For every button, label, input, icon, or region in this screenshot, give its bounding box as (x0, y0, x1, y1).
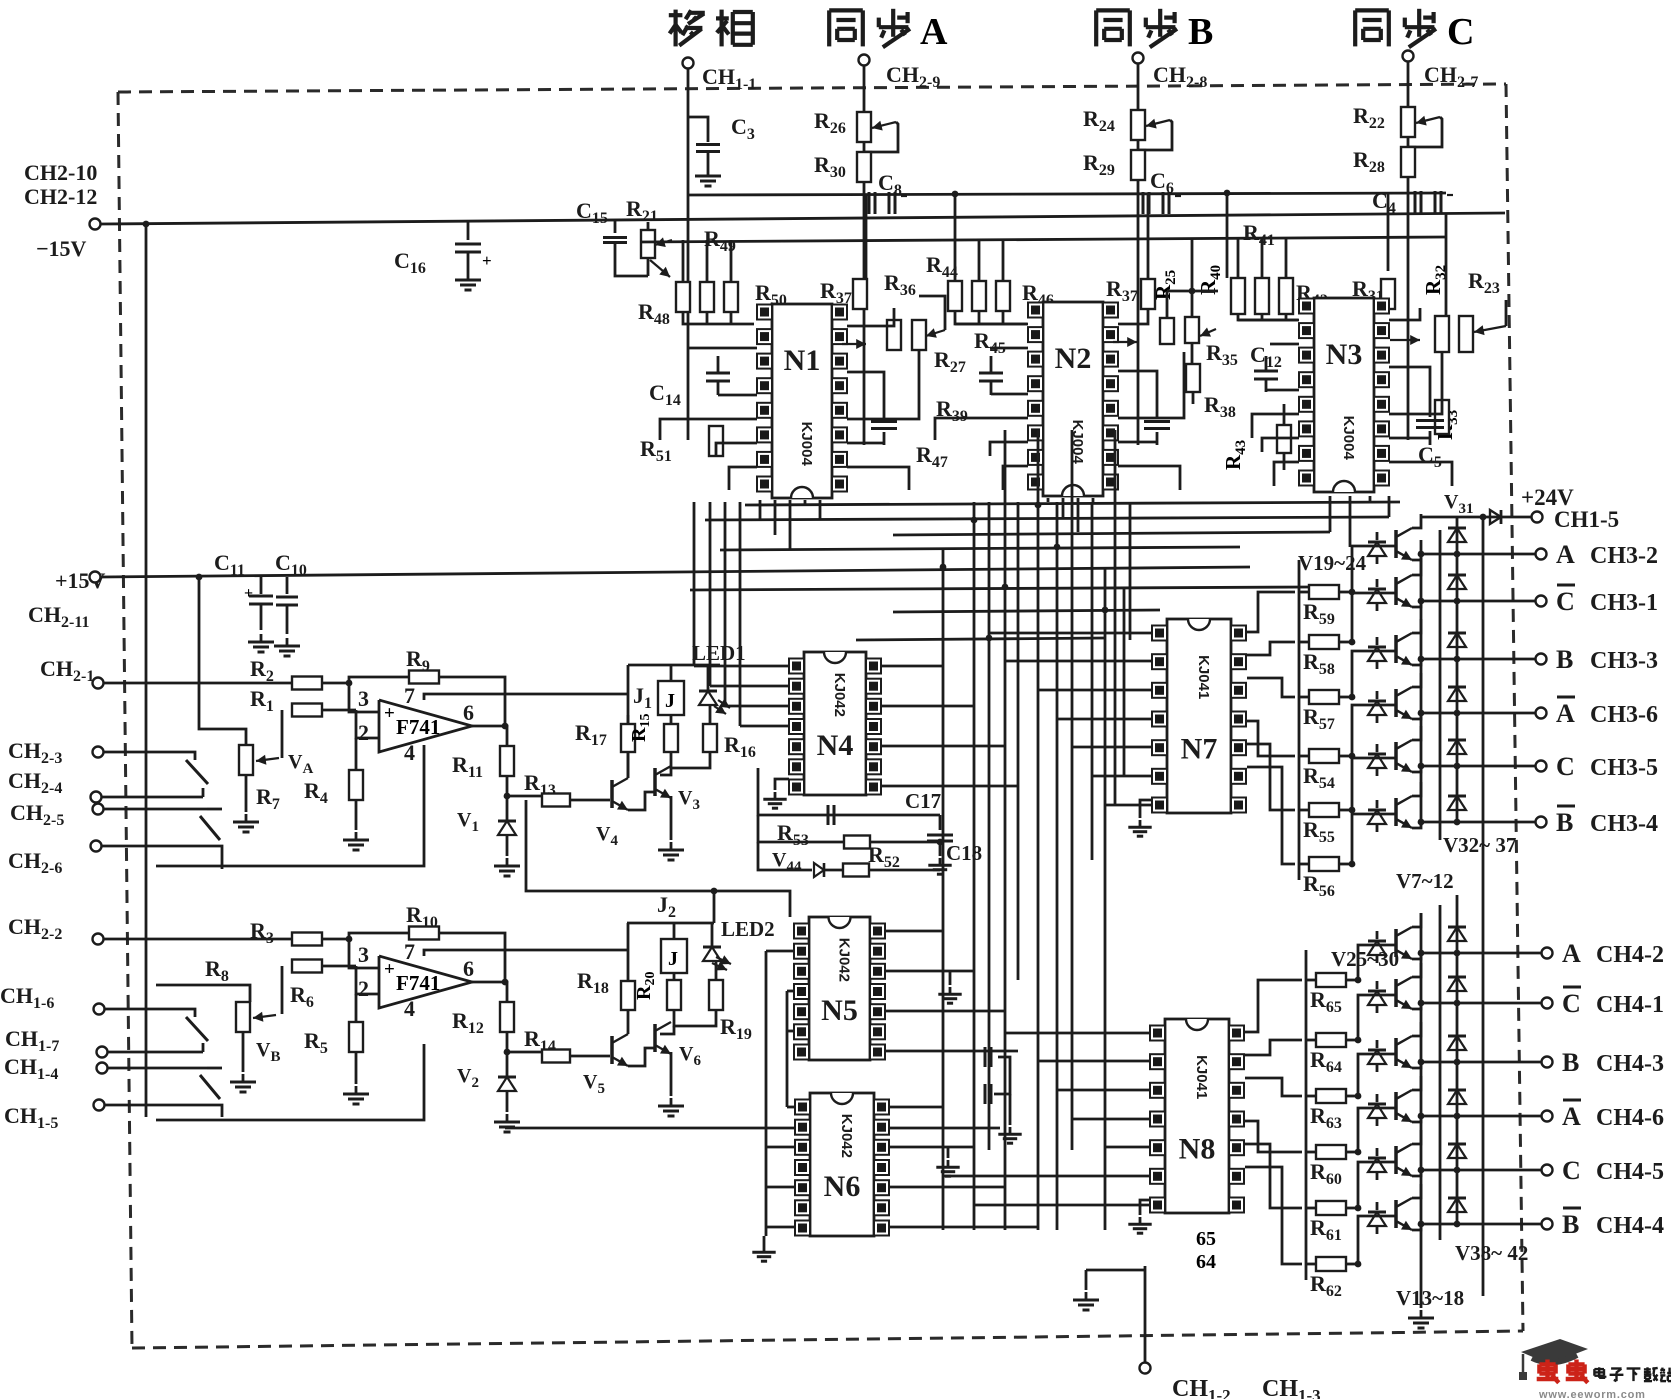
resistor R51 (709, 426, 723, 456)
pot R35 (1185, 317, 1199, 343)
wire pin7 up B (424, 950, 628, 956)
stubs N1 row (682, 240, 685, 282)
opamp B F741 (379, 956, 472, 1008)
wire out CH4-1 (1421, 1002, 1541, 1005)
IC N6 (810, 1093, 874, 1236)
svg-text:KJ042: KJ042 (836, 938, 853, 982)
pot R24 (1131, 110, 1145, 140)
IC N1 (772, 304, 832, 498)
svg-text:CH4-6: CH4-6 (1596, 1105, 1664, 1131)
watermark cap (1521, 1339, 1588, 1364)
resistor R25b (1160, 318, 1174, 344)
diode V13 (1368, 941, 1386, 955)
svg-text:N5: N5 (821, 994, 858, 1027)
terminal CH1-5 right (1532, 512, 1543, 523)
mesh h0b (705, 517, 1389, 520)
wire base V20 (1352, 593, 1396, 642)
resistor R65 (1306, 979, 1316, 982)
wire CH1-2 down (1144, 1266, 1147, 1362)
svg-text:B: B (1556, 645, 1573, 674)
wire emitter join b2 (1412, 1062, 1421, 1068)
diode V15 (1368, 1050, 1386, 1064)
-15V rail (101, 213, 1505, 224)
svg-text:KJ041: KJ041 (1193, 1055, 1210, 1099)
wire pin2 (356, 710, 379, 738)
ground N6 left (763, 1236, 766, 1245)
svg-text:3: 3 (358, 686, 369, 711)
svg-text:+: + (482, 251, 492, 270)
wire N1 right feeds (847, 308, 894, 326)
wire emitter join 1 (1412, 601, 1421, 607)
terminal CH2-3 (93, 747, 104, 758)
svg-text:65: 65 (1196, 1228, 1216, 1250)
svg-text:KJ042: KJ042 (831, 673, 848, 717)
svg-text:B: B (1188, 11, 1213, 53)
svg-text:3: 3 (358, 942, 369, 967)
transistor V27 (1394, 1038, 1398, 1066)
resistor R63 (1306, 1095, 1316, 1098)
transistor V21 (1394, 635, 1398, 663)
wire block A to N5 area (526, 800, 790, 917)
wire elbow N4 pin3 (725, 705, 789, 708)
stub C6 down (1226, 193, 1229, 278)
wire V4 collector (627, 694, 630, 778)
terminal +15V (90, 572, 101, 583)
svg-text:LED2: LED2 (721, 917, 775, 941)
mesh v left (693, 502, 696, 666)
terminal CH4-3 (1542, 1057, 1553, 1068)
IC N3 (1314, 298, 1374, 492)
resistor R62 (1306, 1263, 1316, 1266)
label 移相 (669, 13, 683, 17)
wire out CH4-4 (1421, 1223, 1541, 1226)
diode V9 (1368, 647, 1386, 661)
resistor R61 (1306, 1207, 1316, 1210)
input contact A (178, 752, 195, 760)
wire N8 pin bus (1245, 980, 1302, 1032)
wire collector V21 (1412, 619, 1421, 633)
diode V14 (1368, 991, 1386, 1005)
svg-text:CH2-10: CH2-10 (24, 160, 97, 185)
wire out CH3-6 (1421, 712, 1535, 715)
wire V3 emitter (670, 796, 673, 840)
wire out CH4-6 (1421, 1115, 1541, 1118)
border frame left (118, 92, 132, 1348)
svg-text:CH3-5: CH3-5 (1590, 755, 1658, 781)
diode V8 (1368, 589, 1386, 603)
svg-text:CH4-1: CH4-1 (1596, 992, 1664, 1018)
wire 同步A down (863, 66, 866, 445)
wire elbow N4 pin1 (694, 665, 789, 668)
transistor V28 (1394, 1092, 1398, 1120)
IC N2 (1043, 302, 1103, 496)
ground arrow N3 (1390, 339, 1420, 341)
resistor R29 (1131, 150, 1145, 180)
wire collector V19 (1412, 514, 1421, 528)
diode V37 (1456, 766, 1459, 808)
wire long bottom to N6 (505, 1127, 1000, 1130)
svg-text:64: 64 (1196, 1251, 1216, 1273)
svg-text:F741: F741 (396, 971, 440, 995)
terminal CH4-4 (1542, 1219, 1553, 1230)
wire elbows N8 pins (1005, 1032, 1150, 1035)
wire block B bottom (156, 1044, 424, 1120)
wire pin3 (349, 683, 379, 712)
resistor R59 (1299, 591, 1309, 594)
IC N5 (809, 917, 870, 1060)
diode V18 (1368, 1212, 1386, 1226)
caps right of N5 (984, 1047, 987, 1067)
ground C10 (286, 638, 289, 646)
svg-text:KJ004: KJ004 (798, 422, 815, 467)
mesh h4 (856, 638, 1105, 640)
terminal CH3-2 (1536, 549, 1547, 560)
wire emitter join b5 (1412, 1224, 1421, 1230)
svg-text:CH4-5: CH4-5 (1596, 1159, 1664, 1185)
svg-text:C17: C17 (905, 789, 941, 813)
wire stubs N4 right (881, 665, 943, 668)
collector bus CH4 (1420, 913, 1423, 1228)
wire N2 right feeds (1118, 309, 1148, 324)
svg-text:N3: N3 (1326, 338, 1363, 371)
wire out CH3-2 (1421, 553, 1535, 556)
wire N1 left feeds (688, 347, 757, 350)
wire CH2-4 (102, 796, 203, 799)
diode V34 (1456, 601, 1459, 645)
svg-text:A: A (1556, 699, 1575, 728)
pot VA (239, 745, 253, 775)
IC N4 (804, 652, 866, 795)
wire emitter join b4 (1412, 1170, 1421, 1176)
terminal CH2-5 (93, 804, 104, 815)
border frame top (118, 84, 1506, 92)
diode V35 (1456, 659, 1459, 699)
svg-text:N6: N6 (824, 1170, 861, 1203)
drops N3 bottom (1388, 496, 1391, 517)
ground V2 (506, 1114, 509, 1122)
svg-text:N8: N8 (1179, 1133, 1216, 1166)
diode V36 (1456, 713, 1459, 752)
wire CH2-5 (104, 808, 207, 811)
drops N1 bottom (759, 500, 762, 520)
terminal CH2-4 (91, 792, 102, 803)
ground C16 (467, 252, 470, 272)
rail y242 (640, 237, 1446, 242)
wire base V24 (1352, 814, 1396, 864)
resistor R60 (1306, 1151, 1316, 1154)
wire collector V26 (1412, 963, 1421, 977)
wire out CH3-3 (1421, 658, 1535, 661)
wire base V28 (1358, 1108, 1396, 1152)
terminal CH1-4 (97, 1063, 108, 1074)
ground caps (1009, 1094, 1012, 1125)
wire CH1-4 (108, 1067, 207, 1070)
pot R22 (1401, 107, 1415, 137)
resistor R36 (887, 320, 901, 350)
transistor V30 (1394, 1200, 1398, 1228)
ground V3 (670, 842, 673, 850)
wire N5 left pins bus (765, 951, 768, 1236)
diode V17 (1368, 1158, 1386, 1172)
watermark 虫虫 (1545, 1360, 1549, 1380)
pot bus N2right (1167, 290, 1218, 293)
wire diode chain top CH4 (1456, 895, 1459, 913)
wire emitter join 4 (1412, 766, 1421, 772)
svg-text:V19~24: V19~24 (1298, 551, 1367, 575)
svg-text:V13~18: V13~18 (1396, 1286, 1464, 1310)
diode V12 (1368, 810, 1386, 824)
ground C11 (260, 634, 263, 642)
capacitor C17cap (827, 805, 830, 825)
svg-text:A: A (1562, 1102, 1581, 1131)
wire R17 bottom (627, 752, 630, 778)
svg-text:6: 6 (463, 700, 474, 725)
capacitor near N1 bottom (871, 420, 897, 423)
svg-text:KJ041: KJ041 (1195, 655, 1212, 699)
capacitor C16 (467, 222, 470, 240)
diode V44 (758, 842, 812, 870)
transistor V5 (610, 1036, 614, 1064)
svg-text:C: C (1562, 1156, 1581, 1185)
wire emitter join 2 (1412, 659, 1421, 665)
wire tops J2 LED2 (627, 922, 714, 925)
vertical +24V bus (1482, 517, 1485, 1296)
ground R4 (355, 832, 358, 840)
svg-text:7: 7 (404, 683, 415, 708)
terminal CH3-6 (1536, 708, 1547, 719)
diode V10 (1368, 701, 1386, 715)
wire base V21 (1352, 651, 1396, 697)
svg-text:V25~30: V25~30 (1331, 947, 1399, 971)
resistor row N3 (1231, 278, 1245, 314)
wire under N4 (758, 768, 940, 815)
junction V1 (504, 793, 511, 800)
terminal CH4-1 (1542, 998, 1553, 1009)
wire R15 R16 bottoms (671, 752, 710, 768)
diode V32 (1456, 517, 1459, 540)
resistor R30 (857, 152, 871, 182)
ground VA (245, 775, 248, 812)
resistor row N1 a (676, 282, 690, 312)
wire base V22 (1352, 705, 1396, 756)
svg-text:B: B (1562, 1048, 1579, 1077)
vertical from +15V (199, 577, 246, 745)
ground N4 (775, 779, 789, 790)
wire tops J1 LED1 (628, 664, 720, 667)
resistor R31 (1381, 279, 1395, 309)
svg-text:+: + (384, 959, 395, 980)
svg-text:F741: F741 (396, 715, 440, 739)
wire emitter join b1 (1412, 1003, 1421, 1009)
resistor R4 (349, 770, 363, 800)
+15V rail (101, 567, 1250, 577)
wire out CH3-4 (1421, 821, 1535, 824)
svg-text:2: 2 (358, 976, 369, 1001)
terminal CH1-2 (1140, 1363, 1151, 1374)
terminal CH3-4 (1536, 817, 1547, 828)
wire base V30 (1358, 1216, 1396, 1264)
wire collector V29 (1412, 1130, 1421, 1144)
wire out CH4-2 (1421, 952, 1541, 955)
ground C18 (939, 858, 942, 865)
terminal CH2-1 (93, 678, 104, 689)
svg-text:C: C (1556, 752, 1575, 781)
resistor R55 (1299, 809, 1309, 812)
IC N8 (1165, 1019, 1229, 1213)
wire stubs N6 right (889, 1106, 943, 1109)
terminal CH3-1 (1536, 596, 1547, 607)
resistor R58 (1299, 641, 1309, 644)
wire out CH4-3 (1421, 1061, 1541, 1064)
junction V2 (504, 1049, 511, 1056)
diode V42 (1456, 1170, 1459, 1210)
svg-text:J: J (665, 690, 675, 712)
svg-text:www.eeworm.com: www.eeworm.com (1538, 1389, 1646, 1399)
mesh h0a (745, 502, 1400, 505)
svg-text:−15V: −15V (36, 236, 87, 261)
diode V42 (1456, 1116, 1459, 1156)
wire collector V25 (1412, 913, 1421, 927)
wire N3 left feeds (1238, 319, 1299, 322)
svg-text:KJ004: KJ004 (1340, 416, 1357, 461)
wire CH1-7 (108, 1051, 203, 1054)
svg-text:CH3-4: CH3-4 (1590, 811, 1658, 837)
stubs N2 row (978, 240, 981, 281)
label 同步C (1353, 10, 1357, 46)
wire out CH3-5 (1421, 765, 1535, 768)
wire emitter join 3 (1412, 713, 1421, 719)
terminal CH1-1 (683, 58, 694, 69)
pot R23 (1459, 316, 1473, 352)
wire CH2-2 (104, 938, 294, 941)
wire base V26 (1358, 995, 1396, 1040)
resistor R64 (1306, 1039, 1316, 1042)
resistor R43 (1277, 425, 1291, 453)
junction R2 out (346, 680, 353, 687)
wire pin2 B (356, 966, 379, 994)
wire base V29 (1358, 1162, 1396, 1208)
transistor V3 (653, 768, 657, 796)
wire collector V23 (1412, 726, 1421, 740)
svg-text:CH3-2: CH3-2 (1590, 543, 1658, 569)
wire CH1-5 (105, 1104, 203, 1107)
svg-text:C: C (1447, 11, 1474, 53)
capacitor C3 (688, 117, 708, 142)
transistor V22 (1394, 689, 1398, 717)
ground bottom center (1086, 1269, 1145, 1272)
diode V41 (1456, 1062, 1459, 1102)
terminal CH2-7 (1403, 51, 1414, 62)
label 同步B (1094, 10, 1098, 46)
wire pin4 down (423, 745, 426, 770)
diode V16 (1368, 1104, 1386, 1118)
wire row bottom N1 (683, 312, 754, 324)
wire pin7 up (424, 694, 628, 700)
diode V11 (1368, 754, 1386, 768)
mesh junction dots (971, 517, 978, 524)
wire elbow N4 pin4 (740, 725, 789, 728)
pot R26 (857, 112, 871, 142)
wire base V19 (1352, 546, 1396, 592)
ground N7 (1140, 800, 1152, 818)
svg-text:C: C (1556, 587, 1575, 616)
ground diode chain (1420, 1228, 1423, 1308)
bus left of resistors CH3 (1298, 560, 1301, 880)
wire elbows N7 pins (989, 632, 1152, 635)
resistor R37b (1141, 279, 1155, 309)
wire 移相 down (687, 69, 690, 440)
svg-text:N4: N4 (817, 729, 854, 762)
wire 同步B down (1137, 64, 1140, 445)
svg-text:CH4-4: CH4-4 (1596, 1213, 1664, 1239)
resistor R57 (1299, 696, 1309, 699)
bus left of resistors CH4 (1305, 950, 1308, 1280)
svg-text:B: B (1562, 1210, 1579, 1239)
svg-text:C18: C18 (946, 841, 982, 865)
wire collector V22 (1412, 673, 1421, 687)
junction R3 out (346, 936, 353, 943)
wire V5 to V6 (628, 1048, 655, 1066)
wire R20 R19 bottoms (674, 1010, 716, 1026)
transistor V19 (1394, 530, 1398, 558)
svg-text:V32~ 37: V32~ 37 (1443, 833, 1516, 857)
transistor V4 (610, 780, 614, 808)
mesh h3 (893, 610, 1160, 612)
junction C8 right (952, 191, 959, 198)
transistor V23 (1394, 742, 1398, 770)
transistor V24 (1394, 798, 1398, 826)
stub C8 down (954, 194, 957, 281)
svg-text:J: J (668, 948, 678, 970)
wire V6 emitter (670, 1052, 673, 1096)
label 同步A (827, 10, 831, 46)
wire J2 trunk up (713, 891, 716, 923)
transistor V6 (653, 1024, 657, 1052)
terminal CH2-9 (859, 55, 870, 66)
wire left vertical main (145, 224, 148, 1117)
wire 同步C down (1407, 62, 1410, 440)
ground V1 (506, 858, 509, 866)
terminal -15V (90, 219, 101, 230)
terminal CH4-6 (1542, 1111, 1553, 1122)
ground N8 (1140, 1200, 1150, 1215)
svg-text:A: A (1562, 939, 1581, 968)
svg-text:6: 6 (463, 956, 474, 981)
wire N2 left feeds (955, 323, 1028, 326)
ground R5 (355, 1086, 358, 1094)
terminal CH3-5 (1536, 761, 1547, 772)
resistor R28 (1401, 147, 1415, 177)
input contact B (178, 1009, 195, 1017)
transistor V20 (1394, 577, 1398, 605)
drops N2 bottom (1047, 498, 1050, 502)
svg-text:2: 2 (358, 720, 369, 745)
wire out CH4-5 (1421, 1169, 1541, 1172)
wire base V27 (1358, 1054, 1396, 1096)
terminal CH2-8 (1133, 53, 1144, 64)
IC N7 (1167, 619, 1231, 813)
mesh h1 (720, 547, 1240, 550)
svg-text:B: B (1556, 808, 1573, 837)
pot R27 (912, 320, 926, 350)
wire N3 right feeds (1389, 308, 1420, 320)
resistor R56 (1299, 863, 1309, 866)
opamp A F741 (379, 700, 472, 752)
mesh h2 (690, 587, 1310, 590)
svg-text:N7: N7 (1181, 733, 1218, 766)
svg-text:V7~12: V7~12 (1396, 869, 1454, 893)
wire emitter join b0 (1412, 953, 1421, 959)
